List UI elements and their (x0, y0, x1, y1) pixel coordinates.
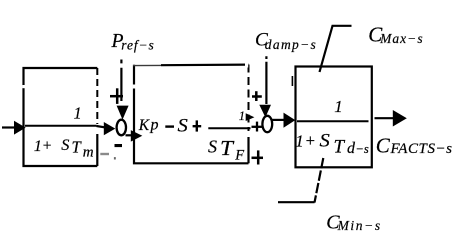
svg-text:1: 1 (295, 132, 304, 151)
dash mark left of G3 (291, 76, 293, 86)
sign + for G2 output into S2 (252, 122, 263, 132)
svg-text:S: S (320, 131, 331, 152)
wire: S2 output to block G3 (272, 119, 285, 121)
arrowhead into summing junction S1 (104, 122, 116, 135)
wire: drop from Cdamp-s to S2 (265, 56, 267, 104)
block G1: measurement lag 1/(1+S Tm-s) (22, 68, 97, 166)
label CMin-s (326, 212, 380, 234)
svg-text:FACTS−s: FACTS−s (390, 141, 453, 157)
wire: S1 output into block G2 (126, 134, 133, 136)
svg-text:m: m (83, 145, 94, 161)
svg-text:1: 1 (74, 104, 82, 123)
svg-text:1: 1 (334, 97, 343, 116)
summing junction S2 (262, 116, 272, 132)
lower limit dashed line to CMin-s (278, 158, 323, 203)
svg-text:+: + (305, 131, 316, 150)
arrowhead Pref-s into S1 (117, 106, 129, 120)
arrowhead S1 output into G2 (131, 130, 143, 142)
wire: system input (2, 126, 15, 128)
label CMax-s (368, 22, 422, 46)
output arrowhead (393, 110, 407, 127)
label Pref-s (111, 31, 154, 53)
svg-text:S: S (178, 116, 189, 137)
svg-text:Max−s: Max−s (379, 31, 423, 46)
block G3: FACTS device lag 1/(1+S Td-s) (295, 67, 372, 168)
svg-text:ref−s: ref−s (121, 38, 154, 53)
svg-text:T: T (220, 136, 234, 160)
svg-text:+: + (42, 137, 52, 154)
input arrowhead into block G1 (14, 121, 26, 135)
svg-text:T: T (334, 137, 346, 158)
svg-text:−s: −s (355, 142, 368, 156)
svg-text:F: F (234, 147, 244, 163)
svg-text:1: 1 (34, 136, 42, 155)
svg-text:K: K (138, 117, 150, 134)
svg-text:1: 1 (239, 109, 245, 123)
upper limit line to CMax-s (320, 26, 352, 72)
sign + for Cdamp-s input (252, 91, 262, 101)
wire: dashed drop from Pref-s to S1 (120, 60, 122, 102)
block G2: PI controller Kp-s + 1/(S Ti-s) (133, 63, 255, 164)
wire: system output (375, 117, 398, 119)
sign − for feedback input below S1 (115, 144, 123, 147)
label CFACTS-s (376, 134, 452, 158)
wire: G1 output to summing junction S1 (97, 126, 107, 128)
sign + for bottom input of S2 (252, 150, 264, 164)
wire: dashed feedback stub below S1 (100, 153, 116, 160)
sign + for Pref-s input (110, 88, 123, 104)
arrowhead S2 output into G3 (284, 113, 296, 128)
svg-text:C: C (376, 134, 391, 158)
label Cdamp-s (255, 30, 316, 52)
svg-text:S: S (208, 137, 217, 157)
svg-text:damp−s: damp−s (265, 37, 316, 52)
svg-text:p: p (150, 117, 159, 134)
summing junction S1 (117, 120, 126, 136)
svg-text:S: S (61, 135, 69, 154)
arrowhead Cdamp-s into S2 (259, 105, 271, 118)
